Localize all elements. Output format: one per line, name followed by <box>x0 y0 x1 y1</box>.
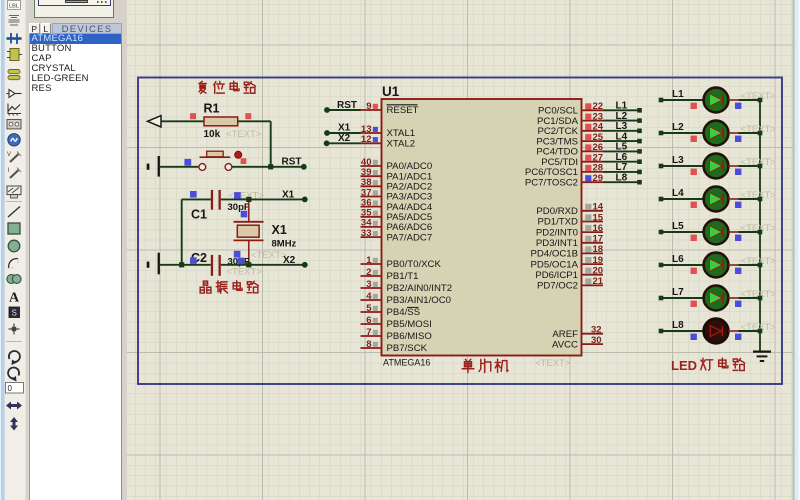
wire: C2 right plate to X2 stub end <box>221 264 305 266</box>
blue handle C2 left <box>190 257 197 264</box>
LED D5 (green) <box>704 220 729 245</box>
blue handle below C1 right <box>241 211 248 218</box>
svg-text:PD2/INT0: PD2/INT0 <box>536 227 578 238</box>
pin 30 (AVCC) right side <box>552 335 603 350</box>
svg-text:14: 14 <box>593 202 604 213</box>
svg-text:8MHz: 8MHz <box>272 239 297 250</box>
svg-text:7: 7 <box>366 327 371 338</box>
handle left of LED D3 <box>691 169 697 175</box>
device item RES <box>30 84 122 94</box>
tool button: virtual instruments <box>7 186 21 198</box>
wire: net L4 to LED D4 <box>661 198 705 200</box>
end dot net L8 (chip side) <box>637 180 642 185</box>
end dot net L5 (chip side) <box>637 149 642 154</box>
svg-text:6: 6 <box>366 315 371 326</box>
divider <box>6 201 22 203</box>
handle left of LED D8 <box>691 334 697 340</box>
tool button: 2D line <box>8 207 20 218</box>
svg-text:PB0/T0/XCK: PB0/T0/XCK <box>387 259 442 270</box>
start dot net L5 (LED side) <box>659 230 664 235</box>
svg-text:2: 2 <box>366 267 371 278</box>
push button (reset) <box>199 151 242 170</box>
tool button: wire label LBL <box>8 1 21 10</box>
svg-text:30: 30 <box>591 335 602 346</box>
crystal X1 <box>234 199 264 264</box>
tool button: tape recorder <box>7 120 21 129</box>
label: 单片机 (microcontroller heading) <box>462 359 474 372</box>
svg-text:XTAL2: XTAL2 <box>387 139 416 150</box>
tool button: terminals <box>8 70 20 80</box>
svg-text:16: 16 <box>593 223 604 234</box>
tool button: rotate clockwise <box>9 351 20 365</box>
tool button: graph mode <box>8 104 21 116</box>
svg-text:AREF: AREF <box>552 329 578 340</box>
ground terminal (crystal circuit) <box>147 253 160 275</box>
wire: net L6 to LED D6 <box>661 264 705 266</box>
pin 18 (PD4/OC1B) right side <box>531 244 604 259</box>
dangling end dot RST wire <box>301 164 307 170</box>
wire: pin 26 to net L5 <box>603 150 640 152</box>
wire: pin 24 to net L3 <box>603 130 640 132</box>
pin 7 (PB6/MISO) left side <box>361 327 432 342</box>
blue handle right of LED D7 <box>735 301 741 307</box>
op-amp style MCU body: ATMEGA16 U1 <box>382 99 582 356</box>
wire: ground to button left <box>160 166 199 168</box>
start dot net L3 (LED side) <box>659 164 664 169</box>
junction: LED D8 on cathode bus <box>758 329 763 334</box>
LED D8 leads <box>728 330 738 332</box>
device item CAP <box>30 54 122 64</box>
svg-text:S: S <box>12 309 17 318</box>
svg-text:15: 15 <box>593 212 604 223</box>
start dot net L6 (LED side) <box>659 263 664 268</box>
pin 38 (PA2/ADC2) left side <box>361 177 433 192</box>
wire: net L3 to LED D3 <box>661 165 705 167</box>
svg-text:L4: L4 <box>672 188 684 199</box>
device item ATMEGA16 (selected) <box>30 34 122 44</box>
svg-text:L8: L8 <box>616 172 628 183</box>
junction: LED D1 on cathode bus <box>758 98 763 103</box>
LED D6 leads <box>728 264 738 266</box>
left mode toolbar <box>0 0 28 500</box>
start dot net L4 (LED side) <box>659 197 664 202</box>
junction: LED D7 on cathode bus <box>758 296 763 301</box>
svg-text:PD6/ICP1: PD6/ICP1 <box>535 270 578 281</box>
pin 5 (PB4/SS) left side <box>361 303 421 318</box>
svg-text:L8: L8 <box>672 320 684 331</box>
tool button: subcircuit <box>7 49 22 61</box>
svg-text:1: 1 <box>366 255 372 266</box>
handle left of LED D2 <box>691 136 697 142</box>
tool button: 2D arc <box>9 259 19 269</box>
svg-text:8: 8 <box>366 339 371 350</box>
start dot net L2 (LED side) <box>659 131 664 136</box>
pin 27 (PC5/TDI) right side <box>541 153 603 168</box>
svg-text:29: 29 <box>593 173 604 184</box>
svg-text:X1: X1 <box>338 123 351 134</box>
svg-text:PA7/ADC7: PA7/ADC7 <box>387 232 433 243</box>
end dot net L3 (chip side) <box>637 129 642 134</box>
wire: X2 net to pin 12 <box>327 142 361 144</box>
svg-text:L5: L5 <box>672 221 684 232</box>
junction: R1 branch on RST wire <box>268 164 273 169</box>
rotation angle edit box <box>6 383 24 394</box>
tool button: buses <box>7 33 22 44</box>
pin 9 (RESET) left side <box>361 101 419 116</box>
svg-text:20: 20 <box>593 266 604 277</box>
ground terminal (LED bus) <box>753 352 771 361</box>
wire: net L5 to LED D5 <box>661 231 705 233</box>
wire: corner to C1 left plate <box>182 198 211 200</box>
schematic sheet border <box>138 78 782 385</box>
sheet outline in overview <box>38 0 111 6</box>
terminal dot X2 wire <box>324 140 330 146</box>
wire: net L7 to LED D7 <box>661 297 705 299</box>
blue handle right of LED D1 <box>735 103 741 109</box>
device list box <box>29 34 123 500</box>
svg-text:PD4/OC1B: PD4/OC1B <box>531 249 578 260</box>
pin 36 (PA4/ADC4) left side <box>361 197 433 212</box>
tool button: voltage probe <box>7 152 21 163</box>
device item CRYSTAL <box>30 64 122 74</box>
svg-text:LBL: LBL <box>9 4 19 10</box>
capacitor C2 <box>211 255 221 276</box>
pin 14 (PD0/RXD) right side <box>536 202 603 217</box>
pin 32 (AREF) right side <box>552 325 603 340</box>
pin 2 (PB1/T1) left side <box>361 267 419 282</box>
svg-text:PB2/AIN0/INT2: PB2/AIN0/INT2 <box>387 283 453 294</box>
wire: pin 25 to net L4 <box>603 140 640 142</box>
wire: terminal to R1 left <box>161 120 204 122</box>
tool button: 2D closed path <box>7 275 21 284</box>
LED D8 (dark) <box>704 319 729 344</box>
resistor R1 <box>204 117 238 126</box>
tool button: origin marker <box>9 324 20 335</box>
device item LED-GREEN <box>30 74 122 84</box>
tool button: device pin <box>7 90 22 98</box>
terminal arrow (input terminal) <box>148 116 162 127</box>
svg-text:R1: R1 <box>204 101 220 115</box>
blue handle right of LED D4 <box>735 202 741 208</box>
wire: button right to RST stub end <box>232 166 304 168</box>
start dot net L8 (LED side) <box>659 329 664 334</box>
wire: R1 right to corner <box>238 120 271 122</box>
svg-text:<TEXT>: <TEXT> <box>251 250 287 261</box>
LED D1 (green) <box>704 88 729 113</box>
wire: pin 23 to net L2 <box>603 120 640 122</box>
pin 24 (PC2/TCK) right side <box>537 122 603 137</box>
svg-text:0: 0 <box>8 384 13 393</box>
svg-text:X1: X1 <box>282 190 295 201</box>
svg-text:L7: L7 <box>672 287 684 298</box>
svg-text:21: 21 <box>593 276 604 287</box>
svg-text:PB3/AIN1/OC0: PB3/AIN1/OC0 <box>387 295 452 306</box>
end dot net L6 (chip side) <box>637 159 642 164</box>
svg-text:V: V <box>7 152 11 158</box>
tool button: rotate anticlockwise <box>8 368 19 382</box>
wire: vertical C1-C2 left bus <box>181 199 183 264</box>
junction: LED D5 on cathode bus <box>758 230 763 235</box>
pin 40 (PA0/ADC0) left side <box>361 157 433 172</box>
svg-text:X1: X1 <box>272 223 287 237</box>
svg-text:RST: RST <box>282 157 302 168</box>
svg-text:PB6/MISO: PB6/MISO <box>387 331 432 342</box>
red handle right of R1 <box>245 113 251 119</box>
blue handle right of LED D8 <box>735 334 741 340</box>
handle left of LED D5 <box>691 235 697 241</box>
svg-text:18: 18 <box>593 244 604 255</box>
blue handle left of button <box>184 159 191 166</box>
start dot net L7 (LED side) <box>659 296 664 301</box>
tool button: 2D circle <box>8 240 20 252</box>
svg-text:PD1/TXD: PD1/TXD <box>537 217 578 228</box>
pin 35 (PA5/ADC5) left side <box>361 208 433 223</box>
start dot net L1 (LED side) <box>659 98 664 103</box>
wire: pin 29 to net L8 <box>603 181 640 183</box>
LED D3 (green) <box>704 154 729 179</box>
LED D4 leads <box>728 198 738 200</box>
LED D7 leads <box>728 297 738 299</box>
LED D1 leads <box>728 99 738 101</box>
pin 19 (PD5/OC1A) right side <box>531 255 604 270</box>
svg-text:U1: U1 <box>382 84 400 99</box>
svg-text:33: 33 <box>361 228 372 239</box>
blue handle C2 right lower <box>238 258 245 265</box>
pin 33 (PA7/ADC7) left side <box>361 228 433 243</box>
svg-text:17: 17 <box>593 234 604 245</box>
svg-text:C1: C1 <box>191 207 207 221</box>
label: 晶振电路 (crystal circuit heading) <box>200 281 211 293</box>
pin 6 (PB5/MOSI) left side <box>361 315 432 330</box>
junction: crystal top on X1 wire <box>246 197 251 202</box>
terminal dot RST wire <box>324 107 330 113</box>
pin 21 (PD7/OC2) right side <box>537 276 604 291</box>
LED D2 leads <box>728 132 738 134</box>
pin 22 (PC0/SCL) right side <box>538 101 603 116</box>
terminal dot X1 wire <box>324 130 330 136</box>
dangling end dot X2 wire <box>302 262 308 268</box>
pin 20 (PD6/ICP1) right side <box>535 266 603 281</box>
handle left of LED D4 <box>691 202 697 208</box>
ground terminal (reset circuit) <box>147 156 160 177</box>
svg-text:PD5/OC1A: PD5/OC1A <box>531 259 579 270</box>
LED D5 leads <box>728 231 738 233</box>
end dot net L4 (chip side) <box>637 139 642 144</box>
LED D3 leads <box>728 165 738 167</box>
end dot net L1 (chip side) <box>637 108 642 113</box>
wire: pin 27 to net L6 <box>603 161 640 163</box>
tool button: vertical mirror <box>10 417 18 431</box>
LED D6 (green) <box>704 253 729 278</box>
junction: LED D6 on cathode bus <box>758 263 763 268</box>
svg-text:PB4/SS: PB4/SS <box>387 307 421 318</box>
svg-text:PD7/OC2: PD7/OC2 <box>537 281 578 292</box>
tool button: generator <box>8 134 20 146</box>
svg-text:4: 4 <box>366 291 372 302</box>
junction: crystal bottom on X2 wire <box>246 262 251 267</box>
chip block in overview <box>65 0 88 3</box>
pin 3 (PB2/AIN0/INT2) left side <box>361 279 453 294</box>
svg-text:PD0/RXD: PD0/RXD <box>536 206 578 217</box>
svg-text:PB5/MOSI: PB5/MOSI <box>387 319 432 330</box>
pin 1 (PB0/T0/XCK) left side <box>361 255 442 270</box>
svg-text:X2: X2 <box>338 133 351 144</box>
pin 29 (PC7/TOSC2) right side <box>525 173 603 188</box>
L button <box>41 23 52 34</box>
svg-text:L1: L1 <box>672 89 684 100</box>
red handle left of R1 <box>190 113 196 119</box>
pin 28 (PC6/TOSC1) right side <box>525 163 603 178</box>
end dot net L7 (chip side) <box>637 170 642 175</box>
blue handle right of LED D5 <box>735 235 741 241</box>
DEVICES header <box>52 23 122 34</box>
svg-text:<TEXT>: <TEXT> <box>535 358 571 369</box>
divider <box>6 341 22 343</box>
wire: net L2 to LED D2 <box>661 132 705 134</box>
pin 13 (XTAL1) left side <box>361 124 416 139</box>
LED D4 (green) <box>704 187 729 212</box>
LED D2 (green) <box>704 121 729 146</box>
svg-text:<TEXT>: <TEXT> <box>226 129 262 140</box>
LED D7 (green) <box>704 286 729 311</box>
junction: LED D4 on cathode bus <box>758 197 763 202</box>
svg-text:L2: L2 <box>672 122 684 133</box>
svg-text:9: 9 <box>366 101 371 112</box>
svg-text:X2: X2 <box>283 255 296 266</box>
handle left of LED D7 <box>691 301 697 307</box>
svg-text:LED: LED <box>671 358 697 373</box>
wire: vertical down to RST net <box>270 121 272 167</box>
pin 37 (PA3/ADC3) left side <box>361 187 433 202</box>
pin 12 (XTAL2) left side <box>361 134 416 149</box>
pin 39 (PA1/ADC1) left side <box>361 167 433 182</box>
pin 8 (PB7/SCK) left side <box>361 339 428 354</box>
svg-text:10k: 10k <box>204 129 221 140</box>
svg-text:L6: L6 <box>672 254 684 265</box>
handle left of LED D6 <box>691 268 697 274</box>
svg-text:L3: L3 <box>672 155 684 166</box>
blue handle right of LED D6 <box>735 268 741 274</box>
tool button: 2D symbol <box>9 307 20 318</box>
junction: C-bus corner on X2 wire <box>179 262 184 267</box>
red handle right of button <box>241 158 247 164</box>
pin 17 (PD3/INT1) right side <box>536 234 603 249</box>
tool button: horizontal mirror <box>6 402 22 410</box>
device item BUTTON <box>30 44 122 54</box>
wire: pin 28 to net L7 <box>603 171 640 173</box>
svg-text:RST: RST <box>337 100 357 111</box>
blue handle right of LED D2 <box>735 136 741 142</box>
junction: LED D2 on cathode bus <box>758 131 763 136</box>
overview preview pane <box>34 0 114 18</box>
pin 23 (PC1/SDA) right side <box>537 111 603 126</box>
wire: net L8 to LED D8 <box>661 330 705 332</box>
svg-text:A: A <box>9 291 20 306</box>
svg-text:19: 19 <box>593 255 604 266</box>
capacitor C1 <box>211 190 221 210</box>
tool button: 2D box <box>8 223 20 234</box>
pin 16 (PD2/INT0) right side <box>536 223 603 238</box>
svg-text:3: 3 <box>366 279 371 290</box>
blue handle C1 top-right <box>234 192 241 199</box>
junction: LED D3 on cathode bus <box>758 164 763 169</box>
pin 4 (PB3/AIN1/OC0) left side <box>361 291 452 306</box>
svg-text:<TEXT>: <TEXT> <box>227 267 263 278</box>
wire: X1 net to pin 13 <box>327 132 361 134</box>
pin 25 (PC3/TMS) right side <box>536 132 603 147</box>
pin 34 (PA6/ADC6) left side <box>361 218 433 233</box>
wire: C1 right plate to X1 stub end <box>221 198 305 200</box>
object selector panel <box>28 0 127 500</box>
svg-text:PC7/TOSC2: PC7/TOSC2 <box>525 177 578 188</box>
svg-text:ATMEGA16: ATMEGA16 <box>383 358 430 368</box>
wire: ground to C2 left plate <box>160 264 211 266</box>
tool button: text script <box>9 16 20 26</box>
handle left of LED D1 <box>691 103 697 109</box>
svg-text:AVCC: AVCC <box>552 339 578 350</box>
tool button: current probe <box>8 168 22 179</box>
wire: pin 22 to net L1 <box>603 109 640 111</box>
svg-text:PB7/SCK: PB7/SCK <box>387 343 428 354</box>
blue handle C2 top-right <box>234 251 241 258</box>
svg-text:PD3/INT1: PD3/INT1 <box>536 238 578 249</box>
svg-text:32: 32 <box>591 325 602 336</box>
label: 复位电路 (reset circuit heading) <box>199 81 206 93</box>
blue handle right of LED D3 <box>735 169 741 175</box>
svg-text:12: 12 <box>361 134 372 145</box>
pin 15 (PD1/TXD) right side <box>537 212 603 227</box>
end dot net L2 (chip side) <box>637 118 642 123</box>
svg-text:PB1/T1: PB1/T1 <box>387 271 419 282</box>
P button <box>29 23 40 34</box>
pin 26 (PC4/TDO) right side <box>536 142 603 157</box>
dangling end dot X1 wire <box>302 197 308 203</box>
svg-text:RESET: RESET <box>387 105 419 116</box>
LED cathode bus vertical wire <box>759 100 761 351</box>
wire: net L1 to LED D1 <box>661 99 705 101</box>
svg-text:5: 5 <box>366 303 372 314</box>
wire: RST net to pin 9 <box>327 109 361 111</box>
blue handle C1 top-left <box>190 191 197 198</box>
